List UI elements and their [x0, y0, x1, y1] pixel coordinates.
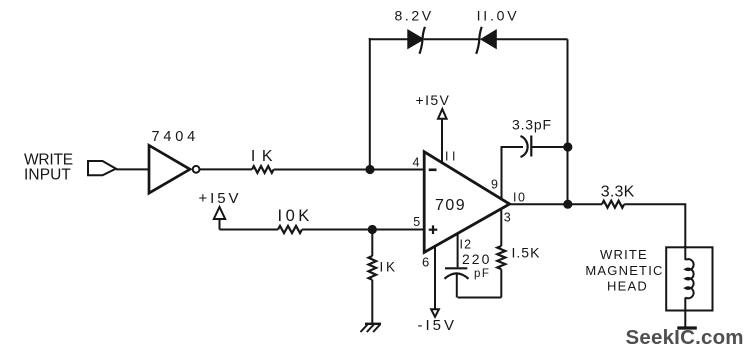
wire pin 12 down to C2 — [457, 234, 459, 267]
wire between zeners — [424, 38, 480, 40]
svg-text:SeekIC.com: SeekIC.com — [626, 326, 744, 349]
svg-text:6: 6 — [422, 255, 429, 270]
wire top rail right — [497, 38, 568, 40]
zener diode D1 8.2V — [408, 31, 422, 48]
svg-text:3: 3 — [504, 211, 511, 225]
wire bubble to R1 — [200, 168, 252, 170]
node junction at pin 5 / 1K to ground — [368, 225, 377, 234]
svg-text:709: 709 — [435, 197, 466, 214]
plus sign pin5 — [429, 225, 438, 234]
svg-text:3.3K: 3.3K — [601, 183, 635, 200]
resistor R3 1K vertical — [369, 256, 377, 280]
wire R4 to head — [624, 204, 685, 248]
resistor R2 10K — [278, 226, 302, 233]
resistor R1 1K — [252, 166, 274, 173]
wire right vertical from rail to output node — [567, 39, 569, 204]
wire vertical up to zener rail — [369, 38, 371, 170]
wire bottom rail of compensation network — [458, 297, 502, 299]
wire pin 3 to R5 — [500, 209, 502, 246]
inverter output bubble — [193, 166, 200, 173]
wire pin 9 vertical — [501, 147, 503, 199]
svg-text:+I5V: +I5V — [416, 92, 451, 108]
write input connector J1 — [88, 161, 116, 175]
capacitor C2 220pF — [445, 267, 467, 269]
svg-text:IK: IK — [380, 260, 398, 275]
write magnetic head box — [666, 247, 712, 310]
svg-text:HEAD: HEAD — [607, 278, 648, 293]
svg-text:4: 4 — [413, 156, 420, 170]
+15V supply at pin 11 — [438, 109, 447, 119]
svg-text:+I5V: +I5V — [199, 190, 242, 207]
wire op-amp output — [510, 203, 602, 205]
wire R2 to op-amp pin 5 — [302, 229, 424, 231]
node feedback top — [563, 142, 572, 151]
zener diode D2 11.0V — [482, 31, 496, 48]
svg-text:9: 9 — [491, 178, 498, 192]
label WRITE MAGNETIC HEAD — [585, 247, 663, 293]
svg-text:MAGNETIC: MAGNETIC — [585, 263, 663, 278]
-15V supply at pin 6 — [434, 247, 436, 310]
inductor L1 write head coil — [685, 248, 693, 328]
op-amp U2 709 — [424, 152, 509, 253]
ground at head — [677, 326, 697, 329]
minus sign pin4 — [429, 169, 437, 172]
wire +15V to R2 — [220, 229, 279, 231]
svg-text:WRITE: WRITE — [600, 247, 648, 262]
svg-text:I2: I2 — [460, 238, 473, 252]
wire connector to inverter — [116, 168, 149, 170]
wire R1 to op-amp pin 4 — [274, 169, 425, 171]
svg-text:3.3pF: 3.3pF — [512, 117, 552, 133]
wire pin9 corner to cap — [501, 146, 524, 148]
svg-text:I0: I0 — [513, 190, 526, 204]
svg-text:7404: 7404 — [152, 129, 199, 145]
capacitor C1 3.3pF — [521, 136, 528, 157]
label WRITE INPUT — [24, 152, 73, 184]
svg-text:II: II — [445, 150, 459, 164]
node junction at zener branch / pin 4 — [365, 165, 374, 174]
node output — [563, 200, 572, 209]
svg-text:I0K: I0K — [278, 207, 313, 225]
svg-text:I.5K: I.5K — [512, 244, 541, 260]
svg-text:II.0V: II.0V — [477, 8, 520, 24]
resistor R4 3.3K — [602, 201, 624, 208]
svg-text:-I5V: -I5V — [418, 317, 458, 334]
wire R3 to ground — [371, 280, 373, 324]
ground — [365, 323, 381, 325]
wire R5 down to rail — [500, 269, 502, 297]
svg-text:220: 220 — [462, 251, 491, 267]
svg-text:8.2V: 8.2V — [395, 8, 434, 24]
svg-text:5: 5 — [413, 215, 420, 229]
+15V supply at 10K — [214, 207, 225, 219]
wire top rail left — [369, 38, 409, 40]
svg-text:INPUT: INPUT — [24, 167, 71, 184]
inverter U1 7404 — [149, 145, 190, 193]
resistor R5 1.5K vertical — [497, 246, 505, 269]
svg-text:IK: IK — [251, 148, 279, 165]
wire junction down to R3 — [371, 230, 373, 257]
svg-text:pF: pF — [474, 268, 490, 280]
